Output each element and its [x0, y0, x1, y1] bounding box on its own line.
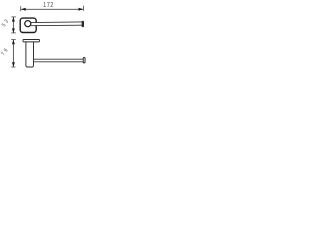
mounting post circle	[25, 21, 31, 27]
bar tube top view (white body)	[31, 22, 83, 25]
dim extension tick top (53)	[11, 16, 16, 18]
bar tube side view bottom edge	[34, 61, 84, 63]
dim line 76	[12, 40, 14, 67]
bar end cap top view	[82, 21, 83, 27]
flange plate side view	[23, 40, 39, 42]
bar tube top edge	[31, 21, 82, 24]
dim extension tick bottom (76)	[11, 66, 15, 68]
arrowhead left (172)	[21, 8, 26, 11]
svg-text:172: 172	[43, 2, 54, 10]
bar end cap side view	[83, 58, 85, 63]
arrowhead right (172)	[79, 8, 84, 11]
dim extension tick left (172)	[20, 6, 22, 11]
arrowhead up (53)	[12, 17, 15, 22]
arrowhead down (76)	[12, 62, 15, 67]
dim line 53	[12, 17, 14, 33]
dim extension tick right (172)	[83, 6, 85, 11]
post side view	[26, 42, 34, 68]
dim extension tick bottom (53)	[11, 32, 16, 34]
arrowhead down (53)	[12, 28, 15, 33]
bar tube side view top edge	[34, 58, 84, 60]
flange plate top view	[20, 18, 36, 32]
dim extension tick top (76)	[11, 39, 16, 41]
arrowhead up (76)	[12, 40, 15, 45]
bar tube bottom edge	[31, 24, 82, 27]
dim line 172	[21, 8, 83, 10]
